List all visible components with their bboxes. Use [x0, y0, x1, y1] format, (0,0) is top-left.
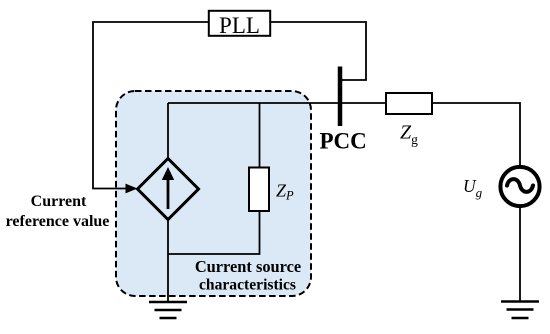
- svg-text:Zg: Zg: [400, 122, 418, 148]
- svg-text:Current: Current: [31, 193, 87, 210]
- svg-text:PCC: PCC: [320, 129, 367, 154]
- svg-text:reference value: reference value: [6, 213, 110, 230]
- svg-text:Ug: Ug: [463, 176, 483, 200]
- svg-text:PLL: PLL: [219, 13, 260, 38]
- svg-text:Current source: Current source: [195, 257, 301, 276]
- svg-text:characteristics: characteristics: [199, 277, 296, 294]
